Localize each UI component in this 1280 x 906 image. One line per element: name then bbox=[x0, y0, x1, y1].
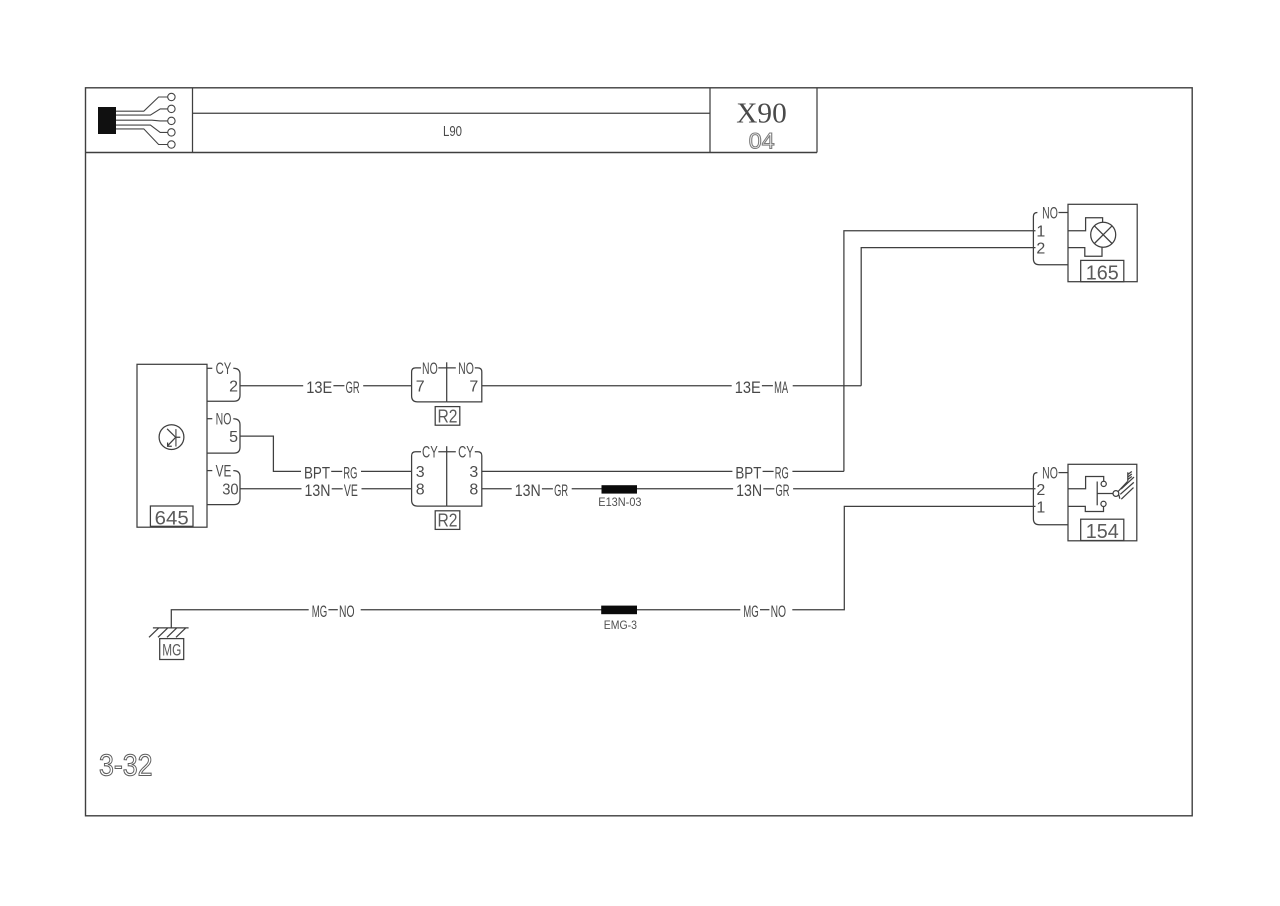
wire BPT-RG from R2 pin3 to node A bbox=[482, 470, 844, 472]
connector R2 upper id box bbox=[435, 407, 460, 426]
645 pin tab VE/30 bbox=[207, 463, 240, 505]
wire label MG-NO left bbox=[309, 602, 361, 621]
svg-text:2: 2 bbox=[1036, 241, 1045, 258]
svg-text:NO: NO bbox=[339, 603, 355, 621]
drawing frame bbox=[86, 88, 1193, 816]
154 connector tab NO 2,1 bbox=[1033, 465, 1068, 525]
svg-text:13E: 13E bbox=[735, 379, 761, 397]
wire label 13E-GR bbox=[303, 378, 363, 397]
svg-text:E13N-03: E13N-03 bbox=[598, 497, 641, 509]
svg-text:GR: GR bbox=[554, 482, 568, 500]
wire vertical node B to 165 pin2 bbox=[861, 248, 1035, 386]
wire 13E-MA from R2 pin7 to node B bbox=[482, 385, 861, 387]
svg-text:13N: 13N bbox=[515, 482, 541, 500]
connector R2 lower id box bbox=[435, 511, 460, 530]
svg-text:R2: R2 bbox=[438, 510, 458, 531]
svg-text:154: 154 bbox=[1086, 521, 1119, 543]
svg-text:30: 30 bbox=[222, 482, 238, 499]
wire vertical node A to 165 pin1 bbox=[844, 231, 1036, 472]
wire label BPT-RG right bbox=[732, 464, 792, 483]
svg-text:NO: NO bbox=[422, 360, 438, 378]
lamp unit 165 bbox=[1068, 204, 1137, 284]
svg-text:1: 1 bbox=[1036, 499, 1045, 516]
svg-text:3-32: 3-32 bbox=[99, 748, 153, 783]
svg-text:7: 7 bbox=[416, 378, 425, 395]
svg-text:2: 2 bbox=[229, 378, 238, 395]
645 pin tab CY/2 bbox=[207, 360, 240, 401]
wire 13N-GR from R2 pin8 to 154 pin2 bbox=[482, 488, 1036, 490]
645 pin tab NO/5 bbox=[207, 411, 240, 454]
svg-text:MG: MG bbox=[312, 603, 328, 621]
165 connector tab NO 1,2 bbox=[1033, 204, 1068, 264]
switch unit 154 bbox=[1068, 464, 1137, 543]
wire label 13E-MA bbox=[732, 378, 793, 397]
svg-text:04: 04 bbox=[749, 128, 775, 153]
header title strip bbox=[86, 88, 818, 153]
svg-text:7: 7 bbox=[469, 378, 478, 395]
svg-text:GR: GR bbox=[776, 482, 790, 500]
wire label BPT-RG bbox=[301, 464, 361, 483]
svg-text:MG: MG bbox=[162, 640, 181, 659]
wire 13N-VE from 645 pin30 to R2 pin8 bbox=[240, 488, 412, 490]
component 645 id box bbox=[150, 506, 193, 526]
splice EMG-3 bbox=[601, 606, 637, 615]
svg-text:645: 645 bbox=[155, 508, 189, 530]
svg-text:RG: RG bbox=[343, 465, 357, 483]
connector R2 upper (NO 7 / NO 7) bbox=[412, 360, 482, 402]
svg-text:13N: 13N bbox=[736, 482, 762, 500]
component 645 symbol circle bbox=[159, 425, 184, 450]
wire label 13N-VE bbox=[302, 481, 362, 500]
wire from 645 pin5 down to BPT-RG bbox=[240, 436, 412, 471]
svg-text:R2: R2 bbox=[438, 405, 458, 426]
svg-text:3: 3 bbox=[469, 464, 478, 481]
svg-text:165: 165 bbox=[1086, 262, 1119, 284]
svg-text:13E: 13E bbox=[306, 379, 332, 397]
svg-text:5: 5 bbox=[229, 429, 238, 446]
wire label 13N-GR right bbox=[733, 481, 793, 500]
svg-text:NO: NO bbox=[1042, 204, 1058, 222]
ground symbol MG bbox=[149, 628, 189, 660]
svg-text:8: 8 bbox=[416, 482, 425, 499]
svg-text:13N: 13N bbox=[305, 482, 331, 500]
svg-text:MG: MG bbox=[743, 603, 759, 621]
svg-text:NO: NO bbox=[458, 360, 474, 378]
wire label 13N-GR middle bbox=[512, 481, 572, 500]
svg-text:NO: NO bbox=[216, 411, 232, 429]
splice E13N-03 bbox=[602, 485, 638, 493]
svg-text:8: 8 bbox=[469, 482, 478, 499]
wire 13E-GR from 645 pin2 to R2 pin7 bbox=[240, 385, 412, 387]
svg-text:CY: CY bbox=[458, 444, 474, 462]
svg-text:VE: VE bbox=[344, 482, 358, 500]
svg-text:BPT: BPT bbox=[735, 465, 761, 483]
svg-text:MA: MA bbox=[774, 379, 788, 397]
svg-text:L90: L90 bbox=[443, 123, 462, 140]
svg-text:1: 1 bbox=[1036, 224, 1045, 241]
svg-text:NO: NO bbox=[1042, 465, 1058, 483]
component 645 box bbox=[137, 364, 207, 527]
svg-text:CY: CY bbox=[216, 360, 232, 378]
svg-text:2: 2 bbox=[1036, 482, 1045, 499]
svg-text:X90: X90 bbox=[736, 98, 787, 130]
svg-text:3: 3 bbox=[416, 464, 425, 481]
svg-text:RG: RG bbox=[775, 465, 789, 483]
svg-text:VE: VE bbox=[216, 463, 232, 481]
svg-text:GR: GR bbox=[346, 379, 360, 397]
wire label MG-NO right bbox=[740, 602, 792, 621]
connector R2 lower (CY 3,8 / CY 3,8) bbox=[412, 444, 482, 506]
wire 154 pin1 to MG ground bbox=[171, 506, 1035, 628]
harness connector icon bbox=[98, 93, 175, 148]
svg-text:CY: CY bbox=[422, 444, 438, 462]
svg-text:EMG-3: EMG-3 bbox=[604, 620, 637, 632]
svg-text:BPT: BPT bbox=[304, 465, 330, 483]
svg-text:NO: NO bbox=[771, 603, 787, 621]
